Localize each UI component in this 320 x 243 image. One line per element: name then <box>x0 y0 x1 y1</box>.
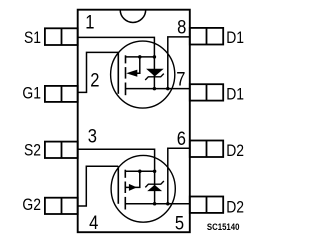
pad D1 (pin 8) <box>190 28 223 45</box>
pad D2 (pin 5) <box>190 197 223 213</box>
svg-text:8: 8 <box>177 16 186 38</box>
junction dot Q1 body-source <box>138 55 142 59</box>
svg-text:D2: D2 <box>226 198 244 217</box>
svg-text:G1: G1 <box>22 84 41 103</box>
Q1 channel (dashed) <box>125 55 127 95</box>
pad D1 (pin 7) <box>190 84 223 100</box>
Q2 source rail <box>125 170 154 172</box>
Q2 drain rail <box>125 203 190 205</box>
junction dot Q1 source-diode <box>153 55 157 59</box>
wire pin4 G2 to Q2 gate <box>78 166 119 206</box>
svg-text:D2: D2 <box>226 142 244 161</box>
svg-text:2: 2 <box>90 69 99 91</box>
svg-text:S1: S1 <box>24 29 41 48</box>
svg-text:D1: D1 <box>226 29 244 48</box>
junction dot Q2 source-diode <box>153 170 157 174</box>
pad G2 (pin 4) <box>45 198 78 214</box>
svg-text:G2: G2 <box>22 196 41 215</box>
svg-text:SC15140: SC15140 <box>207 222 240 233</box>
svg-text:D1: D1 <box>226 85 244 104</box>
transistor Q1 circle (N-channel MOSFET) <box>111 41 175 108</box>
pad S1 (pin 1) <box>45 28 78 45</box>
wire Q2 drain to pin 6 D2 <box>168 148 190 204</box>
svg-text:5: 5 <box>175 212 184 234</box>
junction dot Q2 diode-drain <box>153 202 157 206</box>
svg-text:1: 1 <box>85 11 94 33</box>
Q2 gate electrode <box>117 166 119 204</box>
Q2 body arrow (points away, P-ch) <box>125 171 140 191</box>
package body U (SO-8 outline) <box>78 10 190 233</box>
Q1 body arrow (points to channel, N-ch) <box>126 57 140 77</box>
wire pin1 S1 to Q1 source <box>78 37 155 57</box>
svg-text:S2: S2 <box>24 141 41 160</box>
Q1 gate electrode <box>117 52 119 93</box>
junction dot Q1 diode-drain <box>153 87 157 91</box>
wire pin2 G1 to Q1 gate <box>78 52 119 92</box>
pin-1 notch <box>120 10 146 23</box>
pad S2 (pin 3) <box>45 142 78 158</box>
Q2 channel (dashed) <box>124 170 126 210</box>
pad D2 (pin 6) <box>190 141 223 158</box>
body diode D of Q2 (zener, cathode up) <box>145 171 164 203</box>
junction dot Q1 drain-pin8 <box>166 87 170 91</box>
svg-text:4: 4 <box>89 212 98 234</box>
pad G1 (pin 2) <box>45 86 78 102</box>
wire Q1 drain to pin 8 D1 <box>168 37 190 89</box>
svg-text:6: 6 <box>177 128 186 150</box>
junction dot Q2 body-source <box>138 170 142 174</box>
junction dot Q2 drain-pin6 <box>166 202 170 206</box>
transistor Q2 circle (P-channel MOSFET) <box>111 155 175 222</box>
Q1 drain rail <box>126 88 190 90</box>
svg-text:3: 3 <box>88 125 97 147</box>
wire pin3 S2 to Q2 source <box>78 149 155 171</box>
body diode D of Q1 (zener, cathode down) <box>145 57 164 89</box>
Q1 source rail <box>126 56 155 58</box>
svg-text:7: 7 <box>176 68 185 90</box>
